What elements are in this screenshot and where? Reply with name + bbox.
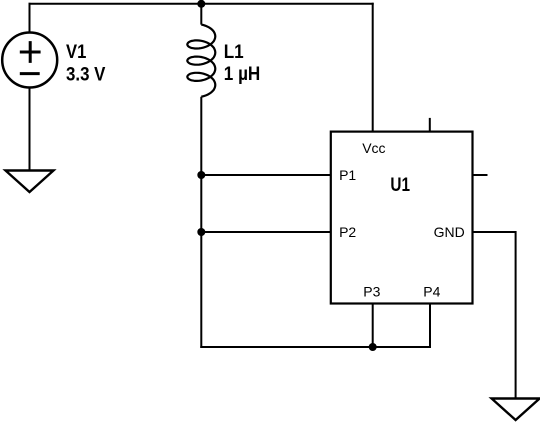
- V1 plus sign: [20, 41, 41, 63]
- wire V1 top vertical: [29, 3, 31, 33]
- wire Vcc vertical drop to U1: [372, 3, 374, 132]
- svg-text:P2: P2: [339, 224, 356, 240]
- node junction P1 wire: [197, 171, 205, 179]
- IC U1 body: [331, 132, 473, 304]
- wire P2 to U1: [201, 231, 330, 233]
- ground symbol left: [6, 171, 54, 193]
- svg-text:Vcc: Vcc: [362, 140, 385, 156]
- wire P4 lead: [429, 304, 431, 349]
- svg-text:1 µH: 1 µH: [224, 64, 260, 85]
- node junction P2 wire: [197, 228, 205, 236]
- svg-text:U1: U1: [390, 175, 410, 196]
- inductor L1 coil: [187, 25, 215, 97]
- svg-text:3.3 V: 3.3 V: [66, 64, 106, 85]
- svg-text:L1: L1: [224, 42, 244, 63]
- svg-text:V1: V1: [66, 42, 87, 63]
- wire bottom net: [200, 346, 431, 348]
- wire top rail from V1 to Vcc drop: [29, 3, 374, 5]
- svg-text:P3: P3: [363, 284, 380, 300]
- wire P1 to U1: [201, 174, 330, 176]
- node junction P3 / bottom net: [369, 343, 377, 351]
- V1 minus sign: [20, 72, 40, 75]
- wire P3 lead: [372, 304, 374, 348]
- wire L1 top lead: [200, 3, 202, 25]
- ground symbol right: [492, 399, 540, 421]
- svg-text:P1: P1: [339, 167, 356, 183]
- pin stub right side of U1: [473, 174, 488, 176]
- svg-text:GND: GND: [434, 224, 465, 240]
- pin stub top of U1: [429, 118, 431, 132]
- wire L1 bottom lead down to bottom net: [200, 97, 202, 348]
- voltage source V1 circle: [2, 33, 57, 88]
- svg-text:P4: P4: [423, 284, 440, 300]
- wire V1 bottom to ground: [29, 88, 31, 171]
- wire GND pin to right ground: [473, 232, 516, 399]
- node junction top rail / L1: [197, 0, 205, 8]
